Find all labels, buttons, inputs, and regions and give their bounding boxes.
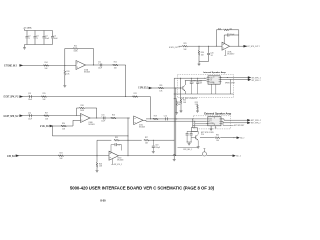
resistor R30 bbox=[198, 50, 200, 55]
wire opamp3 feedback vertical bbox=[127, 118, 129, 156]
ground U19 bbox=[210, 128, 213, 130]
connector BZ- bbox=[237, 137, 240, 139]
ground R33 bbox=[175, 112, 178, 114]
svg-text:R24: R24 bbox=[59, 153, 62, 155]
node row1 output joins row2 bbox=[124, 95, 127, 98]
wire ext amp output top bbox=[221, 118, 224, 120]
wire fb right bbox=[149, 139, 174, 141]
node feedback tap bbox=[92, 64, 95, 67]
svg-text:E TONE_IN 2: E TONE_IN 2 bbox=[4, 64, 17, 68]
svg-text:R21: R21 bbox=[134, 93, 137, 95]
wire Q6 emitter down bbox=[197, 140, 199, 147]
svg-text:External Speaker Amp: External Speaker Amp bbox=[204, 111, 231, 115]
wire v_a long vertical bbox=[173, 78, 175, 159]
svg-text:R16: R16 bbox=[112, 115, 115, 117]
op-amp U16D bbox=[109, 151, 119, 160]
svg-text:.047: .047 bbox=[199, 83, 202, 85]
svg-text:E EXT_SPK_N 2: E EXT_SPK_N 2 bbox=[4, 115, 19, 118]
resistor R12 bbox=[73, 48, 78, 50]
capacitor C15 bbox=[165, 117, 167, 120]
svg-text:R29: R29 bbox=[183, 43, 186, 45]
node sel2 bbox=[190, 141, 193, 144]
wire internal amp input top bbox=[174, 77, 206, 79]
wire U17 feedback outer bbox=[215, 30, 217, 46]
wire U19 ground stub bbox=[210, 126, 212, 129]
svg-text:5000-420 USER INTERFACE BOARD: 5000-420 USER INTERFACE BOARD VER C SCHE… bbox=[70, 185, 215, 190]
svg-text:1 8: 1 8 bbox=[209, 120, 211, 122]
wire R30 to ground bbox=[198, 55, 200, 64]
svg-text:C15: C15 bbox=[164, 116, 167, 118]
wire v_b long vertical bbox=[175, 88, 177, 156]
wire int out down to rail bbox=[229, 80, 231, 94]
wire vol branch down bbox=[51, 126, 53, 136]
svg-text:SPK_SEL_2: SPK_SEL_2 bbox=[183, 149, 192, 151]
node int j4 bbox=[203, 77, 206, 80]
ground R22 bbox=[180, 110, 183, 112]
svg-text:8-50: 8-50 bbox=[100, 199, 106, 203]
svg-text:SPKR 8 OHM: SPKR 8 OHM bbox=[225, 82, 235, 84]
svg-text:Internal Speaker Amp: Internal Speaker Amp bbox=[203, 71, 226, 74]
IC U18 LM386 bbox=[208, 76, 220, 84]
resistor R29 bbox=[182, 45, 187, 47]
svg-text:.01: .01 bbox=[210, 55, 212, 57]
node out cross bbox=[127, 154, 130, 157]
node int out bbox=[226, 76, 229, 79]
node BZ out bbox=[232, 136, 235, 139]
wire R13 to ground bbox=[64, 75, 66, 85]
wire bypass ground stub bbox=[24, 45, 26, 48]
node v_b ext cross bbox=[174, 117, 177, 120]
capacitor C22 bbox=[197, 78, 199, 81]
capacitor C25 bbox=[190, 131, 192, 133]
wire R26 down bbox=[96, 156, 98, 163]
wire tone input bbox=[23, 64, 76, 66]
svg-text:MC3403: MC3403 bbox=[139, 127, 145, 129]
svg-text:10uF: 10uF bbox=[45, 38, 49, 40]
node tone junction bbox=[63, 64, 66, 67]
node int j2 bbox=[190, 77, 193, 80]
capacitor C2 bbox=[26, 31, 28, 37]
capacitor C16 bbox=[102, 117, 104, 120]
svg-text:U19: U19 bbox=[209, 118, 212, 120]
connector BZ+ bbox=[233, 155, 236, 157]
wire ext_spk_p bbox=[23, 96, 151, 98]
dashed box external amp bbox=[194, 116, 231, 129]
wire opamp2 output bbox=[90, 117, 130, 119]
resistor R27 bbox=[144, 139, 149, 141]
wire bypass bottom rail bbox=[25, 44, 53, 46]
node spk_sel vertical bbox=[179, 87, 182, 90]
wire U18 ground stub bbox=[210, 84, 212, 94]
ground C18 bbox=[152, 150, 155, 152]
node opamp3 input bbox=[127, 117, 130, 120]
svg-text:R12: R12 bbox=[74, 45, 77, 47]
node v_a rail bbox=[173, 97, 176, 100]
svg-text:R19: R19 bbox=[154, 116, 157, 118]
wire U17 output bbox=[230, 45, 244, 47]
ground v_a bbox=[173, 158, 176, 160]
svg-text:C14: C14 bbox=[28, 112, 31, 114]
svg-text:MC3403: MC3403 bbox=[84, 71, 90, 73]
svg-text:10uF: 10uF bbox=[28, 99, 32, 101]
capacitor C5 bbox=[52, 31, 54, 37]
ground R13 bbox=[63, 85, 66, 87]
resistor R18 bbox=[79, 107, 84, 109]
svg-text:R11: R11 bbox=[114, 62, 117, 64]
capacitor C14 bbox=[29, 114, 31, 117]
svg-text:INT SPK CONN P9: INT SPK CONN P9 bbox=[182, 98, 197, 100]
svg-text:U16B: U16B bbox=[89, 122, 93, 124]
wire U16D feedback up bbox=[96, 140, 98, 156]
resistor R17 bbox=[44, 115, 49, 117]
connector EXT_SPK- bbox=[247, 122, 250, 124]
capacitor C19 bbox=[226, 34, 228, 37]
connector EXT_SPK+ bbox=[247, 119, 250, 121]
wire U19 pin stub2 bbox=[215, 126, 217, 128]
resistor R24 bbox=[58, 155, 63, 157]
capacitor C11 bbox=[99, 64, 101, 67]
svg-text:BZ_VOL_2: BZ_VOL_2 bbox=[114, 164, 122, 166]
wire select bottom rail bbox=[187, 141, 191, 143]
wire R30 down bbox=[198, 46, 200, 50]
wire opamp3 output bbox=[143, 119, 146, 121]
svg-text:EXT SPK RET: EXT SPK RET bbox=[234, 125, 244, 127]
dashed box internal amp bbox=[177, 74, 233, 97]
resistor R11 bbox=[113, 64, 118, 66]
node rail left bbox=[173, 93, 176, 96]
svg-text:E EXT_SPK_P 2: E EXT_SPK_P 2 bbox=[4, 96, 19, 99]
wire U16D inner cap loop bbox=[110, 145, 112, 154]
wire bz input bbox=[19, 155, 109, 157]
resistor R26 bbox=[96, 162, 98, 167]
svg-text:MC3403: MC3403 bbox=[117, 160, 123, 162]
resistor R15 bbox=[41, 96, 46, 98]
buzzer BZ1 bbox=[202, 152, 206, 156]
transistor Q5 bbox=[182, 86, 184, 90]
node u17 j3 bbox=[215, 45, 218, 48]
ground bypass bank bbox=[23, 47, 26, 49]
wire Q6 collector bbox=[197, 131, 199, 134]
svg-text:LM386: LM386 bbox=[209, 123, 214, 125]
capacitor C13 bbox=[29, 95, 31, 98]
svg-text:P10: P10 bbox=[201, 134, 204, 136]
svg-text:1 8: 1 8 bbox=[210, 79, 212, 81]
wire spk_sel bbox=[152, 87, 183, 89]
svg-text:C16: C16 bbox=[101, 115, 104, 117]
node fb cross2 bbox=[127, 139, 130, 142]
wire opamp1 output bbox=[86, 64, 126, 66]
IC U19 LM386 bbox=[208, 117, 221, 126]
svg-text:U18: U18 bbox=[210, 77, 213, 79]
svg-text:10uF: 10uF bbox=[101, 121, 105, 123]
wire opamp2 feedback bbox=[76, 108, 78, 116]
connector EXT_SPK_OUT bbox=[244, 45, 247, 47]
node U17 output bbox=[237, 45, 240, 48]
ground Q6 bbox=[197, 146, 200, 148]
wire buzzer to connector bbox=[207, 155, 233, 157]
svg-text:R17: R17 bbox=[45, 112, 48, 114]
ground R26 bbox=[96, 170, 99, 172]
svg-text:E SPK_SEL 2: E SPK_SEL 2 bbox=[138, 88, 148, 90]
wire U19 pin stub left2 bbox=[193, 124, 208, 126]
svg-text:R20: R20 bbox=[62, 123, 65, 125]
wire Q5 emitter to rail bbox=[184, 91, 186, 94]
wire C20 to R30 bbox=[208, 55, 210, 62]
wire opamp2 feedback right bbox=[85, 107, 97, 109]
node int j3 bbox=[196, 77, 199, 80]
svg-text:150pF: 150pF bbox=[155, 147, 160, 149]
svg-text:EXT_SPK_OUT 2: EXT_SPK_OUT 2 bbox=[247, 46, 260, 48]
capacitor C20 bbox=[207, 52, 210, 54]
node ext in j1 bbox=[175, 117, 178, 120]
wire ext amp upper input bbox=[146, 118, 206, 120]
wire internal amp input bottom bbox=[185, 80, 206, 82]
ground U17 input bbox=[198, 63, 201, 65]
wire BZ out bbox=[197, 137, 199, 139]
capacitor C3 bbox=[34, 31, 36, 37]
svg-text:C13: C13 bbox=[28, 93, 31, 95]
wire U17 select stub bbox=[224, 50, 226, 55]
svg-text:INT_SPK+ 2: INT_SPK+ 2 bbox=[252, 77, 261, 79]
svg-text:E SPK_OUT 2: E SPK_OUT 2 bbox=[169, 47, 180, 49]
svg-text:R28: R28 bbox=[218, 28, 221, 30]
wire vol input bbox=[52, 125, 70, 127]
svg-text:10uF: 10uF bbox=[28, 118, 32, 120]
wire int amp bias vertical bbox=[180, 78, 182, 98]
wire bypass top rail bbox=[25, 30, 53, 32]
resistor R13 bbox=[64, 70, 66, 75]
capacitor C21 bbox=[190, 78, 192, 81]
svg-text:R23: R23 bbox=[195, 102, 198, 104]
op-amp U16B bbox=[81, 114, 91, 123]
resistor R32 bbox=[215, 137, 220, 139]
svg-text:R15: R15 bbox=[42, 93, 45, 95]
wire R33 stub bbox=[174, 98, 176, 100]
resistor R22 bbox=[180, 99, 182, 104]
svg-text:EXT_SPK- 2: EXT_SPK- 2 bbox=[251, 123, 261, 125]
wire U17 feedback inner right bbox=[229, 34, 239, 36]
wire down to row2 bbox=[125, 65, 127, 97]
node C18 tap bbox=[152, 139, 155, 142]
node opamp2 fb tap bbox=[95, 117, 98, 120]
capacitor C4 bbox=[43, 31, 45, 37]
wire BZ out right bbox=[220, 137, 236, 139]
svg-text:+5V_ANA: +5V_ANA bbox=[23, 26, 32, 29]
node Q5 collector bbox=[184, 79, 187, 82]
resistor R20 bbox=[61, 125, 66, 127]
ground R23 bbox=[196, 110, 199, 112]
node fb cross1 bbox=[127, 134, 130, 137]
svg-text:R27: R27 bbox=[145, 137, 148, 139]
wire U18 pin stub2 bbox=[215, 84, 217, 94]
select box bbox=[191, 128, 197, 132]
wire ext_spk_n bbox=[23, 115, 81, 117]
node sel1 bbox=[186, 141, 189, 144]
wire feedback up bbox=[64, 49, 66, 66]
connector INT_SPK- bbox=[248, 79, 251, 81]
svg-text:R14: R14 bbox=[44, 62, 47, 64]
svg-text:C11: C11 bbox=[98, 62, 101, 64]
transistor Q6 bbox=[195, 136, 197, 140]
op-amp U16C bbox=[134, 116, 143, 125]
svg-text:10uF: 10uF bbox=[98, 68, 102, 70]
wire select cluster rail bbox=[187, 130, 198, 132]
svg-text:10uF: 10uF bbox=[54, 38, 58, 40]
svg-text:.1: .1 bbox=[193, 83, 194, 85]
svg-text:R33: R33 bbox=[178, 102, 181, 104]
svg-text:R18: R18 bbox=[80, 105, 83, 107]
wire internal ground rail bbox=[174, 93, 234, 95]
wire spk_out to opamp bbox=[179, 45, 183, 47]
wire R33 ground bbox=[176, 105, 178, 112]
svg-text:R25: R25 bbox=[115, 137, 118, 139]
svg-text:LM386: LM386 bbox=[210, 82, 215, 84]
wire U19 pin stub left1 bbox=[195, 122, 208, 124]
node int amp in left bbox=[179, 77, 182, 80]
resistor R28 bbox=[223, 29, 228, 31]
ground select cluster bbox=[188, 142, 190, 143]
node ext in j3 bbox=[191, 117, 194, 120]
svg-text:.1: .1 bbox=[28, 38, 29, 40]
op-amp U17 bbox=[222, 42, 230, 50]
wire sel horizontal bbox=[178, 147, 199, 149]
svg-text:MC34072: MC34072 bbox=[227, 54, 234, 56]
wire ext amp output bottom bbox=[221, 120, 223, 122]
capacitor C18 bbox=[152, 140, 154, 146]
svg-text:E BZ_IN 2: E BZ_IN 2 bbox=[7, 155, 15, 158]
resistor R16 bbox=[111, 117, 116, 119]
node v_b top bbox=[174, 87, 177, 90]
node vol junction bbox=[51, 125, 54, 128]
node ext in j4 bbox=[193, 120, 196, 123]
wire Q5 collector bbox=[184, 81, 186, 85]
wire U17 feedback outer right bbox=[227, 29, 239, 31]
svg-text:.1: .1 bbox=[36, 38, 37, 40]
resistor R25 bbox=[114, 139, 119, 141]
node int out2 bbox=[229, 78, 232, 81]
wire C20 down bbox=[208, 46, 210, 53]
wire internal amp output top bbox=[220, 77, 248, 79]
svg-text:BZ+ 2: BZ+ 2 bbox=[236, 156, 241, 158]
resistor R21 bbox=[133, 96, 138, 98]
svg-text:100: 100 bbox=[216, 140, 219, 142]
op-amp U16A bbox=[76, 61, 86, 70]
wire vol to opamp2 plus input bbox=[70, 125, 73, 127]
capacitor C17 bbox=[114, 143, 116, 146]
capacitor C24 bbox=[186, 131, 188, 133]
wire to R13 bbox=[64, 65, 66, 70]
node fb joins v_a bbox=[173, 139, 176, 142]
wire internal amp output bottom bbox=[220, 79, 248, 81]
resistor R19 bbox=[153, 118, 158, 120]
svg-text:BZ- 2: BZ- 2 bbox=[240, 138, 244, 140]
node ext amp input A bbox=[149, 117, 152, 120]
node bz junction bbox=[96, 154, 99, 157]
wire feedback down bbox=[78, 48, 93, 50]
wire hop bbox=[173, 155, 175, 156]
svg-text:C21: C21 bbox=[193, 80, 196, 82]
svg-text:R32: R32 bbox=[216, 135, 219, 137]
wire row2 down to ext amp input bbox=[150, 97, 152, 119]
node u17 j1 bbox=[198, 45, 201, 48]
node u17 j2 bbox=[207, 45, 210, 48]
svg-text:C22: C22 bbox=[199, 80, 202, 82]
wire select box vertical2 bbox=[194, 121, 196, 127]
resistor R14 bbox=[43, 65, 48, 67]
svg-text:MC3403: MC3403 bbox=[89, 124, 95, 126]
svg-text:R31: R31 bbox=[159, 85, 162, 87]
wire select box vertical1 bbox=[192, 119, 194, 128]
wire U16D output bbox=[119, 155, 203, 157]
wire U16D select stub bbox=[112, 159, 114, 165]
connector INT_SPK+ bbox=[248, 76, 251, 78]
svg-text:INT_SPK- 2: INT_SPK- 2 bbox=[252, 80, 261, 82]
wire ext spk ret bbox=[222, 123, 224, 126]
wire fb mid bbox=[119, 139, 142, 141]
svg-text:E VOL_IN 2: E VOL_IN 2 bbox=[40, 126, 50, 128]
resistor R33 bbox=[176, 101, 178, 106]
resistor R31 bbox=[158, 87, 163, 89]
wire U17 feedback inner bbox=[223, 35, 225, 44]
wire R26 ground bbox=[96, 167, 98, 170]
